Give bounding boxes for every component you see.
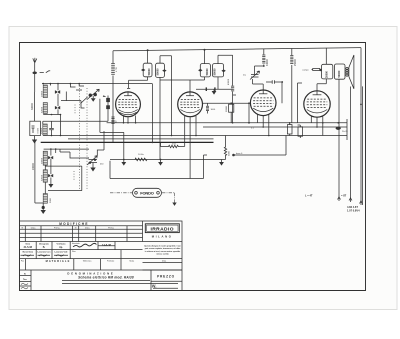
wire V2 pins: [185, 116, 196, 179]
svg-text:40000: 40000: [228, 78, 230, 85]
coil L3: [43, 124, 47, 135]
wire cone drop: [361, 86, 363, 205]
wire V3 plate drop: [248, 103, 250, 123]
svg-text:Formato: Formato: [107, 259, 114, 262]
wire caps row: [196, 88, 233, 90]
ground G2: [160, 160, 162, 163]
wire bank2: [45, 149, 89, 194]
svg-text:Nome Data: Nome Data: [23, 250, 34, 253]
svg-text:50000: 50000: [213, 68, 216, 76]
wire T2 secondary bottom: [217, 77, 219, 89]
svg-text:20000: 20000: [41, 90, 43, 97]
svg-text:Data: Data: [85, 226, 90, 229]
ground G3: [221, 160, 223, 163]
wire CV3 top: [255, 66, 265, 75]
resistor R-ltr: [111, 117, 114, 123]
svg-text:Questo disegno è nostra propri: Questo disegno è nostra proprietà e non: [144, 245, 181, 248]
wire screen drop: [298, 83, 303, 123]
bus chassis dark: [41, 141, 214, 143]
svg-text:10 Kn: 10 Kn: [138, 154, 144, 156]
bank2 bus wire: [44, 148, 89, 150]
bus heater: [68, 138, 214, 140]
svg-text:21·5·38: 21·5·38: [24, 246, 33, 249]
speaker LS cone: [349, 55, 354, 89]
resistor R-screen1: [262, 49, 265, 66]
svg-text:Tolleranza: Tolleranza: [83, 259, 93, 262]
capacitor C3: [49, 128, 54, 129]
capacitor C-coup3: [272, 80, 274, 83]
resistor R-b1 box: [287, 125, 292, 134]
band switch gang line: [78, 88, 80, 190]
wire F-ONDO dashdot: [110, 193, 175, 203]
coil L5: [43, 170, 47, 182]
bus ground line: [110, 159, 226, 161]
trimmer diamond T1a: [141, 69, 145, 72]
wire ant down: [34, 92, 36, 121]
wire avc return: [110, 155, 207, 179]
svg-text:in visione a terzi, senza nost: in visione a terzi, senza nostro special…: [145, 250, 180, 253]
svg-text:Rev.: Rev.: [72, 251, 76, 253]
wire bank1 lower: [43, 115, 108, 136]
capacitor C-el blob: [336, 127, 341, 130]
svg-text:PREZZO: PREZZO: [157, 275, 175, 279]
bank1 bus wire: [42, 83, 152, 85]
wire V4 grid: [317, 79, 326, 95]
trimmer diamond T1b: [162, 69, 166, 72]
svg-text:20+20: 20+20: [342, 131, 349, 133]
drawing border frame: [20, 43, 366, 291]
wire V1 grid: [127, 92, 129, 96]
ground bank2: [50, 183, 52, 185]
bank2 left wire: [35, 142, 43, 203]
svg-text:L = 4T: L = 4T: [305, 194, 313, 198]
wire T1 primary top: [147, 50, 149, 63]
wire V4 pins: [311, 116, 323, 135]
capacitor C-if2: [214, 87, 215, 91]
bus B+ upper: [107, 122, 347, 124]
wire T2 primary top: [204, 50, 206, 64]
svg-text:Data: Data: [31, 226, 36, 229]
tube V1: [116, 92, 141, 117]
svg-text:0.500: 0.500: [38, 127, 40, 133]
svg-text:10000: 10000: [226, 105, 228, 112]
tuning capacitor CV2: [89, 160, 98, 163]
resistor R-k1: [135, 158, 147, 161]
svg-text:FONDO: FONDO: [140, 190, 154, 195]
trimmer diamond T2b: [221, 69, 225, 72]
svg-text:L.TR: L.TR: [116, 67, 118, 72]
irradio logo box: [145, 224, 179, 233]
svg-text:B.: B.: [43, 246, 46, 249]
antenna: [33, 58, 37, 92]
wire V3 plate: [281, 82, 283, 103]
wire base line: [232, 154, 235, 157]
svg-text:MATERIALE: MATERIALE: [46, 259, 71, 263]
wire bank2 loop: [45, 166, 82, 191]
band switch gang line 2: [86, 88, 88, 190]
svg-text:30000: 30000: [41, 157, 43, 164]
materiale row: [20, 259, 183, 270]
svg-text:5000: 5000: [50, 197, 52, 203]
resistor R-campo: [312, 69, 322, 71]
wire T2 primary bottom to V2 plate: [160, 77, 205, 80]
svg-text:N.: N.: [152, 284, 157, 289]
trimmer C5: [48, 174, 53, 177]
ground bank2 bottom: [41, 210, 46, 214]
tuning capacitor CV1: [89, 94, 92, 97]
svg-text:messo scritto: messo scritto: [156, 252, 169, 255]
resistor R-b2 box: [298, 127, 303, 136]
svg-text:Firma: Firma: [54, 226, 60, 229]
trimmer CV3: [251, 75, 259, 78]
svg-text:50000: 50000: [156, 68, 159, 76]
wire T3b down: [338, 79, 340, 201]
wire osc caps drop: [100, 96, 108, 133]
approvals table: [20, 242, 143, 259]
capacitor C-if1: [206, 87, 207, 91]
svg-text:può essere copiato, trasmesso,: può essere copiato, trasmesso, nè dato: [145, 247, 181, 250]
annotation arrows: [338, 197, 363, 204]
capacitor C-pad2: [106, 105, 110, 109]
node bank2 bottom: [42, 206, 45, 209]
svg-text:Lavorato Vale: Lavorato Vale: [54, 250, 68, 253]
capacitor C-pad1: [106, 98, 110, 102]
trimmer C1: [55, 90, 60, 93]
svg-text:Ap.: Ap.: [59, 246, 63, 249]
IF transformer T2b: [213, 64, 224, 77]
svg-text:52500: 52500: [41, 174, 43, 181]
svg-text:15000: 15000: [41, 127, 43, 134]
svg-text:Intestato: Intestato: [72, 242, 81, 245]
signature: [73, 243, 97, 247]
wire T1 secondary bottom down: [159, 77, 161, 159]
svg-text:1.07 0.8V4: 1.07 0.8V4: [347, 209, 360, 213]
wire V2 grid: [189, 80, 191, 96]
coil L-osc on x=113: [111, 64, 115, 75]
IF transformer T1b: [156, 63, 165, 77]
svg-text:40000: 40000: [266, 59, 269, 66]
wire speaker down: [350, 87, 352, 203]
svg-text:50000: 50000: [338, 70, 341, 78]
svg-text:MODIFICHE: MODIFICHE: [59, 222, 89, 226]
node dots bank1: [42, 83, 44, 85]
coil L2: [43, 103, 47, 114]
svg-text:30000: 30000: [31, 103, 34, 110]
tube V3: [250, 90, 276, 116]
svg-text:25000: 25000: [294, 59, 297, 66]
svg-text:Firma: Firma: [108, 226, 114, 229]
coil L4: [43, 151, 47, 165]
title block outline: [20, 221, 183, 291]
modifiche table: [20, 221, 183, 242]
denominazione band: [20, 270, 183, 290]
svg-text:campo: campo: [302, 69, 309, 71]
wire right edge drop: [360, 48, 362, 205]
capacitor C-ant box: [30, 121, 41, 135]
bus B+ mid: [203, 126, 347, 128]
junction dots bus: [123, 159, 125, 161]
svg-text:50000: 50000: [206, 68, 209, 76]
svg-text:MILANO: MILANO: [152, 235, 173, 239]
ground CV1: [92, 96, 94, 98]
wire bus right joiner: [346, 119, 348, 140]
resistor R-osc: [206, 103, 209, 113]
trimmer C2: [55, 106, 60, 109]
svg-text:Pos: Pos: [21, 261, 24, 263]
IF transformer T1a: [143, 63, 152, 77]
svg-text:14·6·38: 14·6·38: [102, 243, 111, 247]
wire T3 top: [325, 48, 327, 64]
svg-text:Schema elettrico RM mod. RA/38: Schema elettrico RM mod. RA/38: [78, 276, 134, 280]
wire V3 grid: [253, 79, 264, 94]
tube V4: [304, 91, 330, 117]
ground ant: [34, 136, 36, 140]
wire bank1: [43, 84, 61, 115]
junction dots buses: [123, 122, 125, 124]
wire T1 primary bottom to V1 grid: [127, 77, 148, 89]
wire cathode: [100, 132, 124, 159]
ground G1: [123, 160, 125, 163]
ground T2: [213, 89, 215, 91]
node F-ONDO oval: [133, 188, 162, 197]
svg-text:base 6: base 6: [236, 153, 243, 155]
antenna trim switch: [40, 71, 44, 73]
resistor R-coup box: [229, 104, 234, 112]
wire T2 secondary loop over: [218, 55, 233, 63]
coil L1: [43, 85, 47, 98]
output transformer T3a: [322, 64, 333, 79]
svg-text:20000: 20000: [32, 163, 35, 170]
svg-text:52500: 52500: [41, 106, 43, 113]
svg-text:= 8T: = 8T: [341, 194, 347, 198]
wire CV2 up: [88, 131, 104, 158]
trimmer C4: [48, 156, 53, 159]
svg-text:50000: 50000: [148, 68, 151, 76]
tube V2: [178, 92, 203, 117]
switch hooks: [61, 84, 85, 108]
resistor R-k2: [161, 145, 185, 147]
trimmer diamond T2a: [198, 69, 202, 72]
output transformer T3b: [334, 64, 345, 79]
wire bus stub L-osc: [112, 51, 114, 63]
svg-text:Tav.: Tav.: [23, 279, 27, 281]
wire CV1: [76, 90, 88, 104]
IF transformer T2a: [200, 64, 210, 77]
resistor R-avc on drop: [231, 55, 236, 123]
svg-text:Lavorato Con: Lavorato Con: [38, 250, 52, 253]
node ant: [33, 72, 37, 75]
speaker LS voice coil: [346, 67, 348, 69]
wire V1 pins: [124, 84, 153, 143]
resistor R-screen2: [290, 48, 293, 122]
bus AVC: [43, 135, 347, 137]
wire V3 pins: [258, 115, 269, 136]
wire V2 plate coupling: [203, 102, 251, 104]
top bus wire: [113, 48, 361, 51]
wire T1 secondary loop over: [160, 56, 172, 136]
tick: [103, 95, 106, 98]
svg-text:2 Kn: 2 Kn: [172, 143, 177, 145]
svg-text:20000: 20000: [326, 70, 329, 78]
coil L6: [43, 194, 47, 204]
svg-text:4.82 4.6T: 4.82 4.6T: [347, 205, 358, 209]
svg-text:IRRADIO: IRRADIO: [150, 227, 173, 233]
ground CV2: [92, 163, 94, 168]
